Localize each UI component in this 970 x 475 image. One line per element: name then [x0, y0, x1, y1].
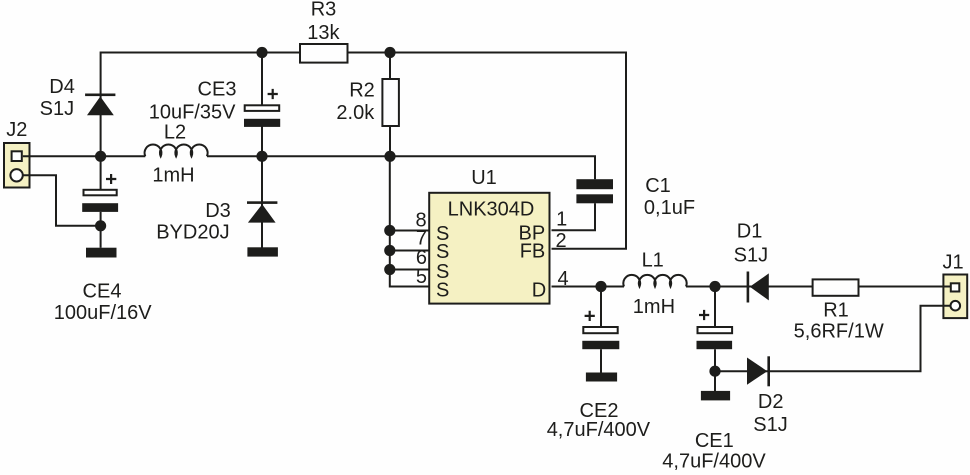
svg-text:R1: R1 [823, 300, 849, 322]
svg-text:2: 2 [555, 230, 566, 252]
svg-text:S: S [436, 280, 449, 302]
svg-text:BYD20J: BYD20J [156, 221, 229, 243]
svg-text:J2: J2 [6, 119, 27, 141]
svg-text:LNK304D: LNK304D [448, 198, 535, 220]
svg-text:4,7uF/400V: 4,7uF/400V [662, 451, 766, 473]
svg-text:0,1uF: 0,1uF [644, 197, 695, 219]
svg-text:5,6RF/1W: 5,6RF/1W [794, 321, 884, 343]
svg-text:L2: L2 [164, 122, 186, 144]
svg-text:1mH: 1mH [152, 165, 194, 187]
svg-text:D1: D1 [737, 221, 763, 243]
svg-text:D4: D4 [49, 76, 75, 98]
svg-text:FB: FB [520, 241, 546, 263]
svg-text:1mH: 1mH [633, 296, 675, 318]
svg-text:CE4: CE4 [83, 281, 122, 303]
svg-text:2.0k: 2.0k [336, 102, 375, 124]
svg-text:U1: U1 [471, 167, 497, 189]
svg-text:R2: R2 [349, 79, 375, 101]
svg-text:10uF/35V: 10uF/35V [149, 101, 236, 123]
svg-text:CE3: CE3 [198, 78, 237, 100]
svg-text:C1: C1 [645, 175, 671, 197]
svg-text:100uF/16V: 100uF/16V [54, 302, 153, 324]
svg-text:D3: D3 [205, 200, 231, 222]
svg-text:13k: 13k [307, 22, 340, 44]
svg-text:R3: R3 [311, 0, 337, 21]
svg-text:4: 4 [557, 268, 568, 290]
svg-text:S1J: S1J [734, 244, 768, 266]
svg-text:S1J: S1J [753, 414, 787, 436]
svg-text:S1J: S1J [40, 98, 74, 120]
svg-text:1: 1 [556, 208, 567, 230]
svg-text:D2: D2 [758, 391, 784, 413]
svg-text:S: S [436, 241, 449, 263]
svg-text:4,7uF/400V: 4,7uF/400V [547, 419, 651, 441]
svg-text:D: D [532, 280, 546, 302]
svg-text:J1: J1 [942, 251, 963, 273]
svg-text:CE1: CE1 [695, 430, 734, 452]
svg-text:L1: L1 [642, 249, 664, 271]
svg-text:5: 5 [416, 266, 427, 288]
